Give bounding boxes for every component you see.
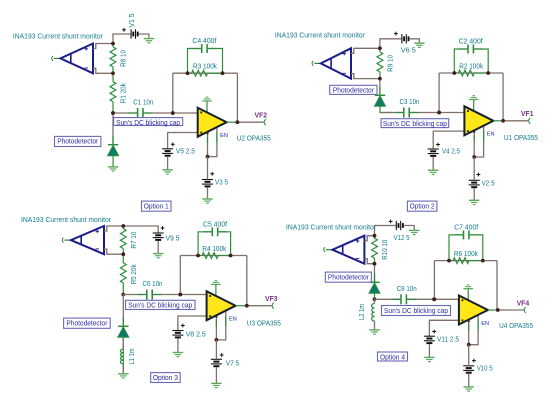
svg-text:Option 2: Option 2 — [410, 201, 435, 210]
svg-text:R9 10: R9 10 — [385, 55, 394, 72]
svg-text:INA193 Current shunt monitor: INA193 Current shunt monitor — [13, 32, 104, 41]
svg-text:V11 2.5: V11 2.5 — [437, 335, 459, 344]
svg-text:V3 5: V3 5 — [215, 177, 228, 186]
svg-text:Sun's DC blicking cap: Sun's DC blicking cap — [384, 306, 448, 315]
svg-text:V4 2.5: V4 2.5 — [442, 147, 460, 156]
svg-text:U2 OPA355: U2 OPA355 — [237, 134, 271, 143]
svg-text:VF4: VF4 — [517, 298, 530, 307]
svg-text:Sun's DC blicking cap: Sun's DC blicking cap — [128, 301, 192, 310]
svg-text:VF2: VF2 — [255, 111, 268, 120]
svg-text:INA193 Current shunt monitor: INA193 Current shunt monitor — [275, 31, 366, 40]
svg-text:Option 3: Option 3 — [153, 373, 178, 382]
svg-text:V5 2.5: V5 2.5 — [176, 147, 195, 156]
svg-text:V7 5: V7 5 — [226, 359, 239, 368]
svg-text:V10 5: V10 5 — [477, 364, 493, 373]
svg-text:C5 400f: C5 400f — [203, 220, 227, 229]
svg-text:U1 OPA355: U1 OPA355 — [504, 133, 538, 142]
svg-text:R1 20k: R1 20k — [119, 83, 128, 103]
svg-text:INA193 Current shunt monitor: INA193 Current shunt monitor — [286, 222, 377, 231]
svg-text:Photodetector: Photodetector — [57, 137, 99, 146]
svg-text:R2 100k: R2 100k — [459, 61, 483, 70]
svg-text:L1 1m: L1 1m — [127, 348, 136, 364]
svg-text:EN: EN — [229, 317, 237, 323]
svg-text:V1 5: V1 5 — [127, 14, 136, 28]
svg-text:VF1: VF1 — [521, 109, 534, 118]
svg-text:V9 5: V9 5 — [166, 234, 180, 243]
svg-text:C8 10n: C8 10n — [397, 284, 417, 293]
svg-text:EN: EN — [487, 132, 495, 138]
svg-text:C6 10n: C6 10n — [143, 279, 163, 288]
svg-text:Photodetector: Photodetector — [333, 86, 375, 95]
svg-text:U3 OPA355: U3 OPA355 — [247, 319, 281, 328]
svg-text:V6 5: V6 5 — [401, 46, 416, 55]
svg-text:VF3: VF3 — [265, 294, 278, 303]
svg-text:INA193 Current shunt monitor: INA193 Current shunt monitor — [21, 215, 112, 224]
svg-text:C2 400f: C2 400f — [459, 37, 483, 46]
svg-text:C7 400f: C7 400f — [454, 223, 478, 232]
svg-text:R8 10: R8 10 — [119, 50, 128, 67]
svg-text:V2 5: V2 5 — [482, 179, 495, 188]
svg-text:U4 OPA355: U4 OPA355 — [499, 321, 533, 330]
svg-text:Photodetector: Photodetector — [328, 272, 370, 281]
svg-text:Option 4: Option 4 — [380, 352, 405, 361]
svg-text:Sun's DC blicking cap: Sun's DC blicking cap — [383, 119, 447, 128]
svg-text:R4 100k: R4 100k — [202, 244, 226, 253]
svg-text:R7 10: R7 10 — [129, 232, 138, 249]
svg-text:C1 10n: C1 10n — [133, 98, 153, 107]
svg-text:L2 1m: L2 1m — [357, 304, 366, 320]
svg-text:Photodetector: Photodetector — [66, 318, 108, 327]
svg-text:R10 10: R10 10 — [380, 240, 389, 260]
svg-text:R5 20k: R5 20k — [129, 264, 138, 284]
svg-text:V12 5: V12 5 — [394, 233, 410, 242]
svg-text:C4 400f: C4 400f — [192, 36, 216, 45]
svg-text:Option 1: Option 1 — [144, 201, 169, 210]
svg-text:R6 100k: R6 100k — [454, 249, 478, 258]
svg-text:Sun's DC blicking cap: Sun's DC blicking cap — [116, 118, 180, 127]
svg-text:V8 2.5: V8 2.5 — [186, 330, 206, 339]
svg-text:R3 100k: R3 100k — [193, 62, 217, 71]
svg-text:C3 10n: C3 10n — [400, 97, 420, 106]
svg-text:EN: EN — [481, 321, 489, 327]
svg-text:EN: EN — [220, 133, 228, 139]
